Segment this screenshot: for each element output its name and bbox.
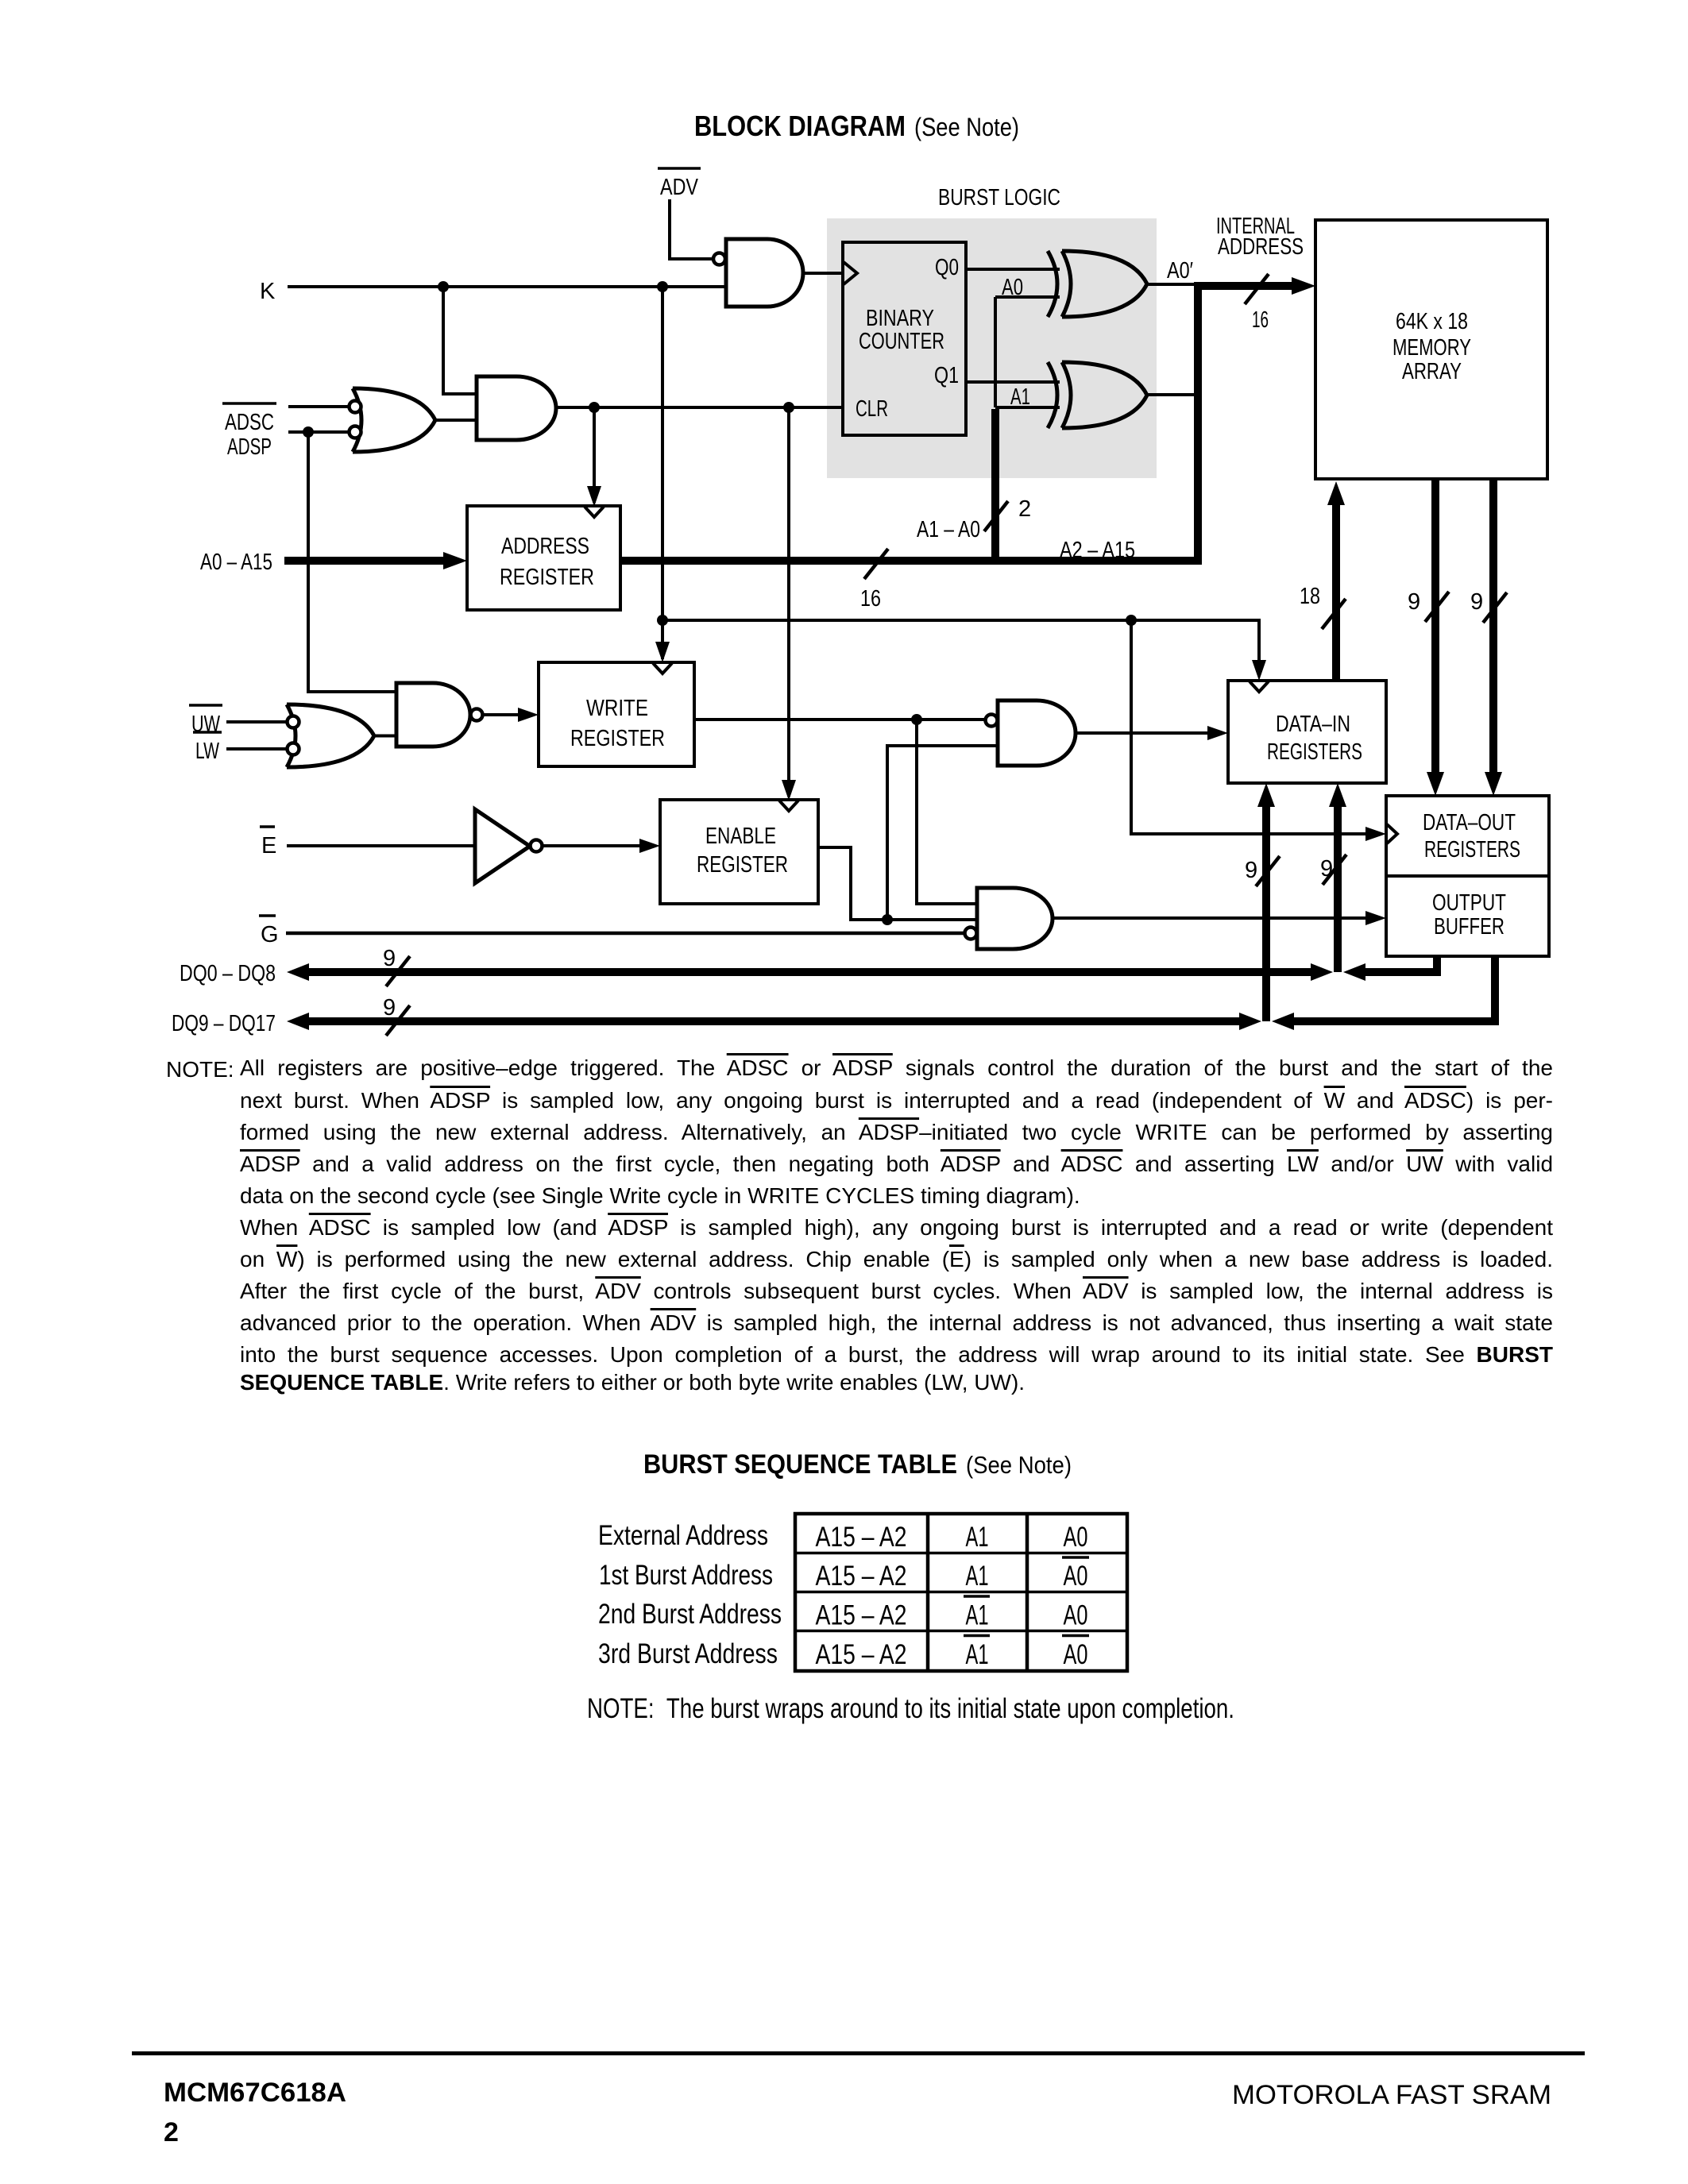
NAND gate U10 (data-in gating), bubbled input [986,700,1076,766]
bus width slash 18 [1300,584,1346,629]
table cells column A1 [964,1522,990,1670]
svg-text:OUTPUT: OUTPUT [1432,890,1506,916]
node data-out clock branch [1126,615,1137,626]
footer MOTOROLA FAST SRAM [1232,2080,1551,2110]
wire ADV drop [670,199,713,259]
wire ADSP input [288,430,350,434]
svg-text:LW: LW [195,739,219,764]
wire U5 output [1147,393,1196,396]
wire U10 output to data-in registers [1076,731,1209,735]
svg-text:A15 – A2: A15 – A2 [816,1561,907,1592]
wire enable register output (stepped) [818,847,977,920]
svg-text:BUFFER: BUFFER [1434,914,1505,940]
svg-text:9: 9 [383,946,396,971]
node write-clock branch [657,615,668,626]
svg-text:3rd Burst Address: 3rd Burst Address [598,1638,778,1669]
svg-text:A0: A0 [1064,1522,1088,1553]
svg-text:A2 – A15: A2 – A15 [1060,538,1135,563]
svg-text:MOTOROLA FAST SRAM: MOTOROLA FAST SRAM [1232,2080,1551,2110]
label A2 - A15 [1060,538,1135,563]
enable register block [660,800,818,904]
svg-text:BLOCK DIAGRAM: BLOCK DIAGRAM [694,110,906,142]
svg-text:K: K [260,279,276,304]
svg-text:REGISTERS: REGISTERS [1267,739,1362,765]
label A1 - A0 and slash 2 [917,496,1031,542]
XOR gate U4 (A0) [1048,251,1147,317]
bus A0-A15 input [284,557,446,565]
svg-text:9: 9 [383,995,396,1021]
svg-text:BURST SEQUENCE TABLE: BURST SEQUENCE TABLE [643,1449,957,1480]
address register block [467,506,620,610]
svg-text:9: 9 [1408,589,1420,615]
svg-text:16: 16 [1252,307,1269,333]
svg-text:A1: A1 [966,1600,989,1631]
table cells column A15-A2 [816,1522,907,1670]
bus width slash 9 (left) [1408,589,1449,622]
wire ADSC input [288,405,350,408]
wire A0 feedback [995,295,1060,299]
svg-text:G: G [261,922,279,947]
svg-text:External Address: External Address [598,1520,768,1551]
label BURST LOGIC [938,185,1060,210]
svg-text:ADDRESS: ADDRESS [1218,234,1304,260]
svg-text:A1: A1 [966,1639,989,1670]
bus output buffer to DQ0-DQ8 [1362,956,1437,972]
svg-text:MCM67C618A: MCM67C618A [164,2078,346,2108]
label A0' internal address bit [1167,258,1193,284]
net label E (active-low) [260,827,276,859]
wire G input [286,932,964,936]
bus 9 memory to data-out (DQ9-DQ17) [1489,479,1497,777]
svg-text:18: 18 [1300,584,1320,609]
NAND gate U6 (write strobe), output bubble [396,683,483,747]
wire A1 feedback [995,406,1060,409]
svg-text:A0: A0 [1064,1639,1088,1670]
svg-text:ADSP: ADSP [227,434,272,460]
wire LW input [226,747,288,751]
bus A1-A0 (2) riser [991,409,999,565]
footer part number MCM67C618A [164,2078,346,2108]
node K-clock junction [657,281,668,292]
wire Q0 output [966,268,1060,271]
footer rule [132,2051,1585,2055]
svg-text:CLR: CLR [856,396,888,422]
svg-text:WRITE: WRITE [586,696,648,721]
table cells column A0 [1062,1522,1089,1670]
label A1 feedback [1010,384,1030,410]
wire U8 output to enable register [543,844,640,847]
svg-text:BURST LOGIC: BURST LOGIC [938,185,1060,210]
svg-text:REGISTER: REGISTER [697,852,788,878]
svg-text:2nd Burst Address: 2nd Burst Address [598,1599,782,1630]
label A0 feedback [1002,275,1023,300]
bus 9 memory to data-out (DQ0-DQ8) [1431,479,1439,777]
bus width slash 9 (DQ0-8) [383,946,410,986]
svg-text:A15 – A2: A15 – A2 [816,1600,907,1631]
net label G (active-low) [259,916,279,947]
wire U4 output [1147,283,1196,286]
table row label External Address [598,1520,768,1551]
svg-text:NOTE: The burst wraps around: NOTE: The burst wraps around to its init… [587,1693,1234,1724]
wire A0/A1 riser (thin) [994,297,997,407]
bus width slash 9 (right) [1470,589,1507,623]
net label ADSP [227,434,272,460]
svg-text:DQ9 – DQ17: DQ9 – DQ17 [172,1011,276,1036]
net label ADV (active-low) [658,168,701,200]
bus output buffer to DQ9-DQ17 [1291,956,1495,1021]
net label DQ9 - DQ17 [172,1011,276,1036]
table row label 1st Burst Address [599,1560,773,1591]
node load to address-register clock [589,402,600,413]
svg-text:16: 16 [860,586,881,612]
svg-text:Q0: Q0 [935,255,959,280]
bus DQ0-DQ8 pad line [306,968,1314,976]
AND gate U3 (K load gating) [477,376,556,440]
burst logic shaded region [827,218,1157,478]
NAND gate U1 (ADV/K burst advance), bubbled input [713,239,803,307]
wire write register output [694,718,985,721]
net label UW (active-low) [189,705,222,737]
bus width slash 16 (internal address) [1245,274,1269,333]
net label LW (active-low) [193,732,222,764]
table row label 2nd Burst Address [598,1599,782,1630]
footer page number 2 [164,2117,179,2147]
svg-text:ADSC: ADSC [225,410,274,435]
label INTERNAL ADDRESS [1216,214,1304,260]
note label [166,1057,234,1082]
svg-text:2: 2 [164,2117,179,2147]
wire K clock drop to write register [661,287,664,659]
svg-text:ARRAY: ARRAY [1402,359,1462,384]
svg-text:ADDRESS: ADDRESS [501,534,589,559]
wire UW input [226,720,288,723]
table row label 3rd Burst Address [598,1638,778,1669]
node load to enable-register clock [783,402,794,413]
net label ADSC (active-low) [222,403,276,435]
inverter U8 (E), output bubble [475,809,543,883]
wire Q1 output [966,380,1060,384]
svg-text:COUNTER: COUNTER [859,329,944,354]
wire E input [287,844,475,847]
wire U6 output to write register [483,713,520,716]
svg-text:ADV: ADV [660,175,699,200]
svg-text:(See Note): (See Note) [966,1451,1072,1479]
data-in registers block [1228,681,1386,783]
title BLOCK DIAGRAM [694,110,1019,142]
NOR gate U7 (UW/LW), bubbled inputs [287,704,374,767]
64K x 18 memory array block [1315,220,1547,479]
svg-text:2: 2 [1018,496,1031,522]
write register block [539,662,694,766]
wire K feed to data-out register clock [1131,620,1381,834]
bus width slash 16 (A0-A15) [860,549,888,612]
bus 9 DQ9-DQ17 riser to data-in [1262,802,1270,1021]
wire K feed to data-in register clock [662,620,1259,676]
svg-text:MEMORY: MEMORY [1393,335,1471,361]
svg-text:A0: A0 [1064,1561,1088,1592]
output buffer block [1386,876,1549,956]
svg-text:DQ0 – DQ8: DQ0 – DQ8 [180,961,276,986]
svg-text:A0: A0 [1064,1600,1088,1631]
net label K [260,279,276,304]
svg-text:A1: A1 [966,1522,989,1553]
wire K input line [288,285,726,288]
XOR gate U5 (A1) [1048,362,1147,428]
table footnote [587,1693,1234,1724]
bus DQ9-DQ17 pad line [306,1017,1242,1025]
net label A0 - A15 [200,550,272,575]
svg-text:64K x 18: 64K x 18 [1396,309,1468,334]
svg-text:REGISTER: REGISTER [570,726,665,751]
svg-text:A0′: A0′ [1167,258,1193,284]
svg-text:E: E [261,833,276,859]
svg-text:DATA–OUT: DATA–OUT [1423,810,1516,835]
node K-AND junction [438,281,449,292]
bus internal address (16) to memory [620,286,1295,561]
svg-text:A1 – A0: A1 – A0 [917,517,980,542]
svg-text:(See Note): (See Note) [914,113,1019,141]
wire U9 output to output buffer [1053,916,1366,920]
svg-text:A0 – A15: A0 – A15 [200,550,272,575]
NAND gate U9 (output enable gating), bubbled input [965,888,1053,949]
net label DQ0 - DQ8 [180,961,276,986]
table title BURST SEQUENCE TABLE [643,1449,1072,1480]
svg-text:ENABLE: ENABLE [705,824,776,849]
wire enable signal to NAND U10 [887,746,998,920]
burst sequence table grid [795,1514,1127,1671]
svg-text:9: 9 [1245,858,1257,883]
NOR gate U2 (ADSC/ADSP), bubbled inputs [350,388,436,452]
wire load drop to address register clock [593,407,596,503]
data-out registers block [1386,796,1549,876]
bus 18 data-in to memory [1332,492,1340,681]
bus 9 DQ0-DQ8 riser to data-in [1334,802,1342,972]
bus width slash 9 (DQ9-17 riser) [1320,855,1346,885]
svg-text:DATA–IN: DATA–IN [1276,712,1350,737]
bus width slash 9 (DQ9-17) [383,995,410,1036]
svg-text:REGISTERS: REGISTERS [1424,837,1520,862]
wire K to AND gate [443,287,477,394]
wire U7 output [374,735,396,738]
node enable branch [882,914,893,925]
node write signal branch [911,714,922,725]
wire U3 output to counter CLR [556,406,841,409]
svg-text:1st Burst Address: 1st Burst Address [599,1560,773,1591]
node ADSP branch junction [303,426,314,438]
svg-text:9: 9 [1470,589,1483,615]
binary counter block [843,242,966,435]
wire write signal to NAND U9 [917,720,977,904]
wire load drop to enable register clock [787,407,790,797]
bus width slash 9 (DQ0-8 riser) [1245,856,1280,886]
svg-text:Q1: Q1 [934,363,959,388]
svg-text:A15 – A2: A15 – A2 [816,1639,907,1670]
wire ADSP drop to NAND U6 [308,432,396,692]
svg-text:A15 – A2: A15 – A2 [816,1522,907,1553]
wire U1 output to counter clock [803,272,841,275]
svg-text:BINARY: BINARY [866,306,934,331]
wire U2 output [435,419,477,422]
svg-text:REGISTER: REGISTER [500,565,594,590]
svg-text:A1: A1 [966,1561,989,1592]
